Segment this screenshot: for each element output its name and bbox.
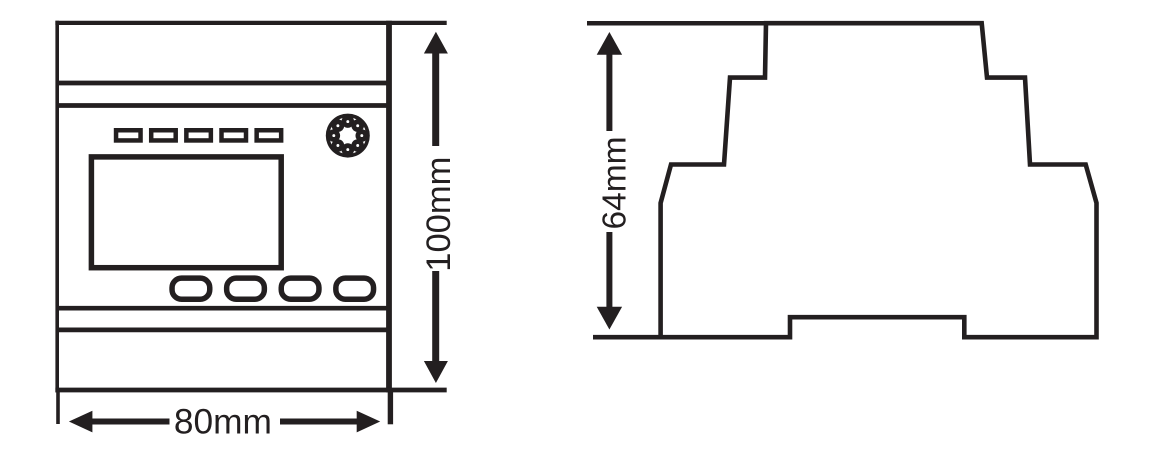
svg-text:80mm: 80mm [174,402,272,441]
svg-text:100mm: 100mm [420,157,458,272]
svg-text:64mm: 64mm [596,136,633,229]
